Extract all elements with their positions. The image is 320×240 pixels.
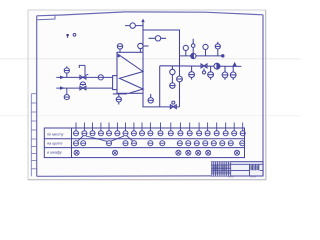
svg-text:на щите: на щите	[47, 141, 62, 145]
svg-text:в шкафу: в шкафу	[47, 151, 63, 155]
svg-text:по месту: по месту	[47, 132, 64, 136]
